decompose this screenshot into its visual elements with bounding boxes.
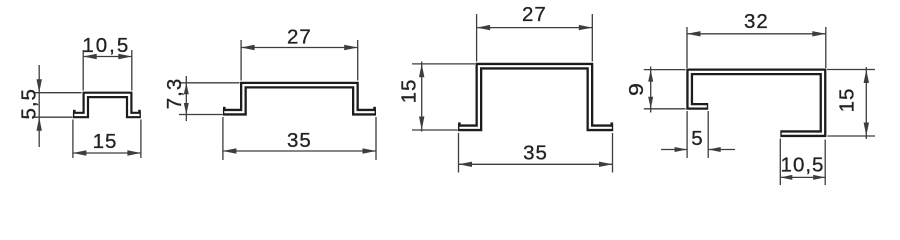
svg-text:15: 15 <box>93 130 118 153</box>
svg-text:10,5: 10,5 <box>781 154 825 177</box>
svg-text:27: 27 <box>287 26 312 49</box>
svg-text:7,3: 7,3 <box>163 78 186 110</box>
svg-text:5: 5 <box>691 127 703 150</box>
svg-text:35: 35 <box>287 129 312 152</box>
svg-text:27: 27 <box>522 3 547 26</box>
svg-text:32: 32 <box>744 10 769 33</box>
svg-text:10,5: 10,5 <box>82 34 130 57</box>
svg-text:5,5: 5,5 <box>18 88 41 120</box>
svg-text:9: 9 <box>625 82 648 96</box>
svg-text:15: 15 <box>836 88 859 113</box>
svg-text:35: 35 <box>523 142 548 165</box>
svg-text:15: 15 <box>398 79 421 104</box>
